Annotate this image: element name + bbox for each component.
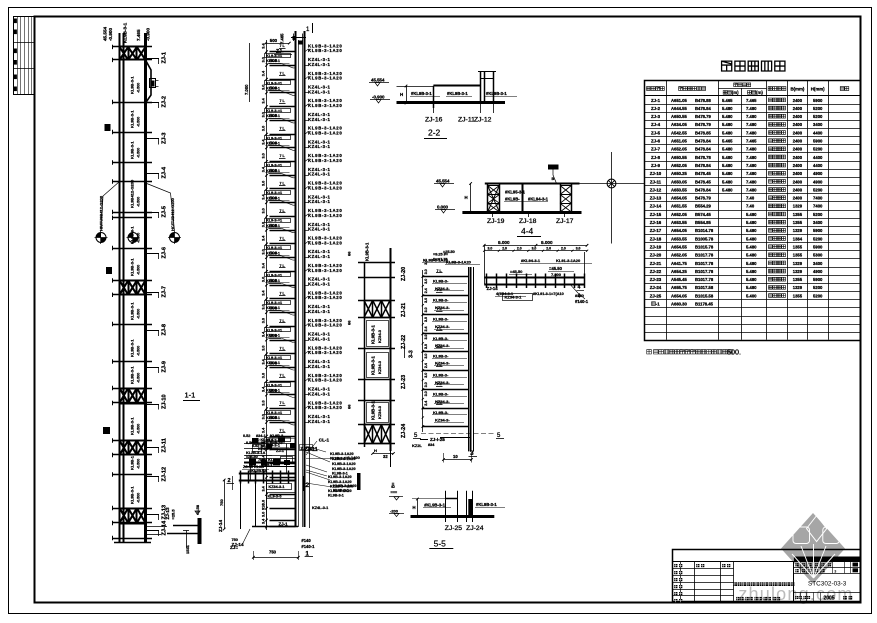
svg-text:HC/TUB412-G200: HC/TUB412-G200	[170, 197, 175, 231]
svg-text:KL9-3-=1: KL9-3-=1	[266, 301, 282, 305]
title block bottom right	[672, 550, 860, 603]
left ladder rails	[119, 33, 121, 543]
svg-text:ZJ-2: ZJ-2	[161, 96, 167, 108]
svg-text:ZJ-11: ZJ-11	[161, 438, 167, 452]
svg-text:3.0: 3.0	[424, 307, 428, 312]
left ladder base	[114, 542, 151, 544]
svg-text:ZJ-21: ZJ-21	[650, 261, 662, 266]
svg-text:3.0: 3.0	[262, 277, 266, 282]
svg-text:A651.55: A651.55	[671, 204, 688, 209]
svg-text:32: 32	[383, 454, 388, 459]
svg-text:KL9B-3-1A20: KL9B-3-1A20	[308, 350, 342, 355]
leader to pipe label	[570, 284, 585, 299]
svg-text:7400: 7400	[813, 204, 823, 209]
svg-text:A654.25: A654.25	[671, 269, 688, 274]
right jog with black connection box under ZJ-1	[146, 60, 152, 103]
svg-text:A651.05: A651.05	[671, 98, 688, 103]
table title	[722, 61, 732, 71]
signature strip table top-left	[14, 17, 35, 96]
watermark zhulong logo diamond	[781, 513, 845, 584]
svg-text:B1178.45: B1178.45	[695, 302, 714, 307]
svg-text:=KL2B-3A: =KL2B-3A	[249, 469, 268, 473]
svg-text:KL9-1: KL9-1	[262, 463, 273, 467]
svg-text:KZ2L: KZ2L	[412, 443, 423, 448]
svg-text:zhulong.com: zhulong.com	[738, 584, 853, 604]
svg-text:KL9B-3-1A20: KL9B-3-1A20	[328, 489, 352, 493]
svg-text:#KL9B-3-1: #KL9B-3-1	[476, 502, 497, 507]
section title 1-1	[183, 391, 200, 401]
svg-text:3.0: 3.0	[576, 247, 581, 251]
svg-text:#KL9B-3-1: #KL9B-3-1	[486, 91, 507, 96]
svg-text:500: 500	[270, 333, 278, 338]
svg-text:CL-1: CL-1	[319, 438, 330, 443]
svg-text:500: 500	[270, 360, 278, 365]
title block project name	[733, 582, 737, 586]
svg-text:4900: 4900	[813, 269, 823, 274]
svg-text:B478.45: B478.45	[695, 179, 712, 184]
svg-text:B1017.78: B1017.78	[695, 261, 714, 266]
svg-text:7 L: 7 L	[280, 236, 286, 240]
svg-text:=9.25 #=: =9.25 #=	[433, 252, 449, 256]
svg-text:3: 3	[834, 569, 836, 573]
svg-text:7.465: 7.465	[280, 33, 285, 44]
svg-text:ZJ-24: ZJ-24	[650, 285, 662, 290]
svg-text:A653.55: A653.55	[671, 220, 688, 225]
svg-text:#KL94-3-1: #KL94-3-1	[528, 197, 549, 202]
table empty bottom rows	[645, 316, 862, 318]
svg-text:2400: 2400	[793, 179, 803, 184]
4th ladder labels between rungs	[436, 272, 443, 274]
svg-text:A545.45: A545.45	[671, 277, 688, 282]
svg-text:3.0: 3.0	[262, 112, 266, 117]
svg-text:2400: 2400	[793, 171, 803, 176]
5-5 columns pair1	[445, 491, 447, 522]
svg-text:7.480: 7.480	[746, 130, 757, 135]
svg-text:-1: -1	[656, 302, 660, 307]
svg-text:ZJ-20: ZJ-20	[650, 253, 662, 258]
svg-text:#34: #34	[428, 443, 435, 447]
svg-text:1531: 1531	[185, 544, 190, 554]
svg-text:2400: 2400	[793, 130, 803, 135]
title block bottom right date row	[800, 592, 802, 601]
svg-text:5.480: 5.480	[746, 261, 757, 266]
svg-text:B574.45: B574.45	[695, 212, 712, 217]
svg-text:KL9-3-=1: KL9-3-=1	[266, 383, 282, 387]
svg-text:KZ4L-3-1: KZ4L-3-1	[308, 62, 330, 67]
svg-text:B: B	[552, 177, 555, 181]
svg-text:7.000: 7.000	[244, 84, 249, 95]
svg-text:2.0: 2.0	[502, 247, 507, 251]
svg-text:3.0: 3.0	[424, 354, 428, 359]
svg-text:KL9-3-=1: KL9-3-=1	[266, 164, 282, 168]
extra density cluster big-ladder connection zone	[243, 434, 357, 498]
svg-text:KL9B-3-: KL9B-3-	[433, 336, 449, 341]
shaft base and leader to ZJ-14	[252, 526, 298, 528]
svg-text:7 L: 7 L	[280, 291, 286, 295]
svg-text:7 L: 7 L	[280, 264, 286, 268]
3-3 bottom dimension	[373, 453, 394, 455]
svg-text:3.0: 3.0	[262, 373, 266, 378]
svg-text:ZJ-12: ZJ-12	[474, 117, 492, 124]
svg-text:B=0.75: B=0.75	[270, 441, 282, 445]
svg-text:7.000: 7.000	[551, 272, 562, 277]
svg-text:7.480: 7.480	[746, 163, 757, 168]
svg-text:ZJ-22: ZJ-22	[650, 269, 662, 274]
svg-text:5200: 5200	[813, 106, 823, 111]
svg-text:3: 3	[470, 450, 474, 457]
svg-text:3.0: 3.0	[262, 414, 266, 419]
big ladder left dimension line with ticks	[266, 40, 268, 530]
svg-text:2-2: 2-2	[428, 128, 441, 138]
svg-text:-0.500: -0.500	[137, 493, 141, 503]
svg-text:2400: 2400	[793, 122, 803, 127]
svg-text:5.480: 5.480	[722, 130, 733, 135]
svg-text:B478.84: B478.84	[695, 187, 712, 192]
svg-text:4: 4	[578, 285, 581, 291]
elevation 1-1 left pipe-rack column ladder ZJ-1..ZJ-14	[95, 22, 182, 543]
svg-text:KZ4L-3-1: KZ4L-3-1	[308, 336, 330, 341]
svg-text:ZJ-1: ZJ-1	[161, 52, 167, 64]
note text under table	[647, 348, 741, 357]
svg-text:3.0: 3.0	[424, 335, 428, 340]
svg-text:2.4: 2.4	[424, 401, 428, 406]
svg-text:ZJ-19: ZJ-19	[650, 244, 662, 249]
svg-text:7 L: 7 L	[437, 326, 443, 330]
svg-text:3.0: 3.0	[488, 247, 493, 251]
svg-text:KZ4L-3-1: KZ4L-3-1	[308, 309, 330, 314]
svg-text:66: 66	[347, 404, 352, 409]
plan strip beam with columns	[433, 240, 592, 304]
svg-text:KZ4L-3-1: KZ4L-3-1	[308, 227, 330, 232]
svg-text:5200: 5200	[813, 293, 823, 298]
svg-text:7 L: 7 L	[437, 344, 443, 348]
svg-text:ZJ-1: ZJ-1	[651, 98, 661, 103]
svg-text:ZJ-8: ZJ-8	[161, 324, 167, 336]
svg-text:3.4: 3.4	[262, 70, 266, 76]
5-5 column thick pair2	[466, 491, 468, 522]
svg-text:ZJ-10: ZJ-10	[161, 394, 167, 409]
big ladder left overall dim line	[249, 43, 251, 102]
svg-text:B1014.78: B1014.78	[695, 228, 714, 233]
svg-text:#KL9B-3-1: #KL9B-3-1	[447, 91, 468, 96]
svg-text:ZJ-9: ZJ-9	[651, 163, 661, 168]
svg-text:3.4: 3.4	[262, 194, 266, 200]
svg-text:=0.58: =0.58	[195, 504, 200, 515]
svg-text:KL9B-3-1: KL9B-3-1	[130, 302, 135, 320]
svg-text:5.480: 5.480	[746, 228, 757, 233]
svg-text:3.4: 3.4	[262, 290, 266, 296]
svg-text:KL9B-3-1: KL9B-3-1	[371, 401, 376, 420]
svg-text:1355: 1355	[793, 293, 803, 298]
leader polylines to circles	[101, 182, 120, 232]
svg-text:KL9B-3-1A20: KL9B-3-1A20	[332, 462, 356, 466]
svg-text:5.480: 5.480	[746, 236, 757, 241]
svg-text:500: 500	[270, 415, 278, 420]
svg-text:KL9B-3-1A20: KL9B-3-1A20	[308, 48, 342, 53]
svg-text:3.4: 3.4	[262, 485, 266, 491]
svg-text:0.000: 0.000	[437, 204, 449, 209]
svg-text:5900: 5900	[813, 228, 823, 233]
svg-text:500: 500	[270, 86, 278, 91]
svg-text:KZ4L-3-1: KZ4L-3-1	[308, 172, 330, 177]
svg-text:7 L: 7 L	[280, 401, 286, 405]
svg-text:KL9B-3-1: KL9B-3-1	[130, 76, 135, 94]
svg-text:500: 500	[270, 38, 278, 43]
svg-text:3.0: 3.0	[424, 279, 428, 284]
svg-text:KL9B-3-: KL9B-3-	[433, 298, 449, 303]
svg-text:-0.500: -0.500	[137, 373, 141, 383]
svg-text:ZJ-1: ZJ-1	[276, 449, 284, 453]
svg-text:-0.500: -0.500	[137, 459, 141, 469]
svg-text:A651.05: A651.05	[671, 139, 688, 144]
svg-text:66: 66	[347, 251, 352, 256]
svg-text:KL9B-3-1: KL9B-3-1	[130, 141, 135, 159]
column shaft rectangle	[256, 481, 296, 527]
svg-text:KL9B-3-1: KL9B-3-1	[371, 325, 376, 344]
svg-text:B(mm): B(mm)	[790, 86, 804, 91]
svg-text:4900: 4900	[813, 171, 823, 176]
svg-text:ZJ-11: ZJ-11	[650, 179, 662, 184]
svg-text:1355: 1355	[793, 277, 803, 282]
svg-text:KZ4L-3-1: KZ4L-3-1	[308, 89, 330, 94]
2-2 H dimension	[406, 86, 408, 103]
svg-text:KL9B-3-1A20: KL9B-3-1A20	[308, 158, 342, 163]
svg-text:1329: 1329	[793, 285, 803, 290]
svg-text:B554.85: B554.85	[695, 220, 712, 225]
svg-text:KL9B-3-1A20: KL9B-3-1A20	[308, 405, 342, 410]
svg-text:3.4: 3.4	[262, 235, 266, 241]
section 4-4	[434, 165, 582, 237]
svg-text:7 L: 7 L	[280, 127, 286, 131]
svg-text:KL9B-1: KL9B-1	[130, 455, 135, 470]
svg-text:ZJ-5: ZJ-5	[651, 130, 661, 135]
svg-text:1329: 1329	[793, 204, 803, 209]
svg-text:45.554: 45.554	[103, 27, 108, 41]
svg-text:5.480: 5.480	[722, 179, 733, 184]
svg-text:500: 500	[270, 278, 278, 283]
svg-text:KL9B-3-1A20: KL9B-3-1A20	[308, 131, 342, 136]
svg-text:B478.45: B478.45	[695, 171, 712, 176]
svg-text:KL9B-3-1A20: KL9B-3-1A20	[308, 76, 342, 81]
svg-text:B1017.78: B1017.78	[695, 277, 714, 282]
svg-text:ZJ-15: ZJ-15	[650, 212, 662, 217]
svg-text:5200: 5200	[813, 114, 823, 119]
svg-text:KL9B-3-1A20: KL9B-3-1A20	[308, 185, 342, 190]
svg-text:ZJ-7: ZJ-7	[651, 147, 661, 152]
svg-text:ZJ-8: ZJ-8	[651, 155, 661, 160]
svg-text:500: 500	[270, 250, 278, 255]
svg-text:7 L: 7 L	[280, 374, 286, 378]
svg-text:0.52: 0.52	[243, 434, 250, 438]
svg-text:#34-1: #34-1	[256, 434, 266, 438]
svg-text:-200: -200	[390, 508, 399, 513]
svg-text:=45.50: =45.50	[510, 269, 523, 274]
svg-text:3.0: 3.0	[424, 382, 428, 387]
svg-text:3.0: 3.0	[424, 373, 428, 378]
svg-text:ZJ-I-25: ZJ-I-25	[430, 437, 445, 442]
svg-text:3.0: 3.0	[424, 298, 428, 303]
svg-text:KL9B-3-1A20: KL9B-3-1A20	[308, 240, 342, 245]
svg-text:=3-1400: =3-1400	[345, 455, 361, 460]
svg-text:B478.88: B478.88	[695, 98, 712, 103]
4-4 top-right leader label	[548, 165, 559, 170]
svg-text:ZJ-14: ZJ-14	[218, 520, 223, 532]
svg-text:3.4: 3.4	[262, 331, 266, 337]
5-5 left dim	[417, 499, 419, 516]
svg-text:ZJ-14: ZJ-14	[487, 286, 499, 291]
svg-text:#KL9B-3-1: #KL9B-3-1	[424, 503, 445, 508]
svg-text:5.480: 5.480	[722, 106, 733, 111]
crosshair reference target and leader lines to table	[580, 152, 645, 244]
svg-text:KL9B-3-1A20: KL9B-3-1A20	[308, 268, 342, 273]
svg-text:A650.55: A650.55	[671, 155, 688, 160]
svg-text:ZJ-4: ZJ-4	[161, 166, 167, 178]
svg-text:KL9B-3-1A20: KL9B-3-1A20	[308, 213, 342, 218]
svg-text:===: ===	[391, 490, 398, 494]
svg-text:7.480: 7.480	[746, 155, 757, 160]
svg-text:ZJ-21: ZJ-21	[401, 303, 407, 317]
bottom 750 dimension	[253, 557, 298, 559]
svg-text:B478.79: B478.79	[695, 114, 712, 119]
svg-text:3.0: 3.0	[424, 269, 428, 274]
title block left signature table	[672, 568, 733, 570]
svg-text:ZJ=: ZJ=	[230, 545, 238, 550]
svg-text:7 L: 7 L	[280, 72, 286, 76]
small black weld marks	[105, 124, 111, 131]
svg-text:H: H	[400, 92, 403, 97]
svg-text:2400: 2400	[793, 187, 803, 192]
svg-text:KZ4B-1: KZ4B-1	[258, 447, 271, 451]
svg-text:5.480: 5.480	[722, 155, 733, 160]
svg-text:500: 500	[270, 113, 278, 118]
svg-text:-0.900: -0.900	[146, 28, 151, 41]
svg-text:B478.85: B478.85	[695, 130, 712, 135]
svg-text:7 L: 7 L	[437, 269, 443, 273]
svg-text:KL9B-3-1: KL9B-3-1	[130, 366, 135, 384]
extra black blobs dense row	[249, 459, 256, 466]
svg-text:5.465: 5.465	[722, 139, 733, 144]
svg-text:7.480: 7.480	[746, 122, 757, 127]
2-2 ground line	[397, 101, 506, 104]
svg-text:3400: 3400	[813, 122, 823, 127]
table header	[645, 95, 862, 97]
svg-text:KL9B-3-: KL9B-3-	[433, 317, 449, 322]
svg-text:ZJ-10: ZJ-10	[650, 171, 662, 176]
svg-text:5.400: 5.400	[746, 293, 757, 298]
svg-text:2.4: 2.4	[424, 363, 428, 368]
table outer border	[645, 81, 861, 341]
4-4 H dim	[470, 184, 472, 213]
svg-text:KZ4L-3-1: KZ4L-3-1	[308, 117, 330, 122]
svg-text:7.480: 7.480	[746, 106, 757, 111]
svg-text:3.4: 3.4	[262, 518, 266, 524]
svg-text:500: 500	[270, 168, 278, 173]
left vertical dim 750	[224, 480, 226, 529]
svg-text:A654.05: A654.05	[671, 293, 688, 298]
svg-text:#140-1: #140-1	[301, 544, 315, 549]
svg-text:3.0: 3.0	[262, 304, 266, 309]
svg-text:#140: #140	[575, 293, 585, 298]
svg-text:2400: 2400	[793, 98, 803, 103]
svg-text:2400: 2400	[793, 147, 803, 152]
svg-text:3.0: 3.0	[262, 512, 266, 517]
svg-text:7400: 7400	[813, 196, 823, 201]
svg-text:3.0: 3.0	[424, 317, 428, 322]
beam end detail near ZJ-13/ZJ-14	[146, 504, 239, 554]
right side vertical + labels	[309, 437, 311, 528]
elevation ladder with left rungs (right of 3-3)	[412, 250, 477, 463]
svg-text:KZ4L-3-1: KZ4L-3-1	[308, 144, 330, 149]
svg-text:ZJ-3: ZJ-3	[161, 132, 167, 144]
svg-text:ZJ-23: ZJ-23	[650, 277, 662, 282]
svg-text:ZJ-25: ZJ-25	[650, 293, 662, 298]
4th ladder rungs and dim line	[422, 270, 424, 432]
svg-text:5.480: 5.480	[746, 253, 757, 258]
svg-text:KL9B-3-1A20: KL9B-3-1A20	[446, 260, 472, 265]
svg-text:KL9B-3-1: KL9B-3-1	[130, 486, 135, 504]
svg-text:ZJ-9: ZJ-9	[161, 361, 167, 373]
svg-text:A650.25: A650.25	[671, 171, 688, 176]
svg-text:1384: 1384	[793, 236, 803, 241]
svg-text:B1005.78: B1005.78	[695, 236, 714, 241]
svg-text:#KL94-3-1: #KL94-3-1	[521, 258, 541, 263]
svg-text:KL9B-3-1: KL9B-3-1	[332, 472, 348, 476]
svg-text:750: 750	[269, 550, 277, 555]
svg-text:H(mm): H(mm)	[811, 86, 825, 91]
svg-text:5900: 5900	[813, 98, 823, 103]
3-3 rungs	[358, 262, 395, 264]
plan strip dimension 9.000 9.000	[484, 245, 587, 247]
big ladder rungs, left boxes, right leader labels	[270, 51, 296, 53]
svg-text:3.0: 3.0	[262, 249, 266, 254]
5-5 ground line	[411, 515, 495, 518]
svg-text:3.0: 3.0	[262, 126, 266, 131]
svg-text:3.0: 3.0	[262, 400, 266, 405]
svg-text:A655.75: A655.75	[671, 285, 688, 290]
plan strip sub dimensions	[484, 250, 587, 252]
svg-text:-0.500: -0.500	[137, 83, 141, 93]
svg-text:3.0: 3.0	[532, 247, 537, 251]
svg-text:2400: 2400	[793, 139, 803, 144]
svg-text:2.4: 2.4	[424, 288, 428, 293]
svg-text:9.000: 9.000	[498, 240, 510, 245]
svg-text:A650.55: A650.55	[671, 187, 688, 192]
svg-text:KL9B-3-: KL9B-3-	[433, 353, 449, 358]
svg-text:B478.84: B478.84	[695, 106, 712, 111]
svg-text:(m): (m)	[756, 90, 763, 95]
svg-text:KZ34-3-1: KZ34-3-1	[505, 295, 523, 300]
svg-text:7 L: 7 L	[437, 382, 443, 386]
svg-text:A652.05: A652.05	[671, 163, 688, 168]
survey target circles with leaders	[96, 233, 106, 243]
svg-text:B=: B=	[391, 482, 396, 488]
svg-text:3.4: 3.4	[262, 386, 266, 392]
svg-text:5.480: 5.480	[746, 220, 757, 225]
svg-text:KL9B-3-1: KL9B-3-1	[328, 494, 344, 498]
svg-text:ZJ-7: ZJ-7	[161, 286, 167, 298]
svg-text:A644.55: A644.55	[671, 106, 688, 111]
svg-text:-0.500: -0.500	[137, 309, 141, 319]
svg-text:B1015.58: B1015.58	[695, 293, 714, 298]
boxed labels in shaft	[267, 484, 292, 490]
svg-text:3.0: 3.0	[262, 85, 266, 90]
svg-text:5.480: 5.480	[722, 171, 733, 176]
svg-text:ZJ-1: ZJ-1	[279, 522, 289, 527]
svg-text:2400: 2400	[793, 106, 803, 111]
svg-text:7.480: 7.480	[746, 171, 757, 176]
svg-text:7 L: 7 L	[437, 307, 443, 311]
svg-text:3400: 3400	[813, 220, 823, 225]
